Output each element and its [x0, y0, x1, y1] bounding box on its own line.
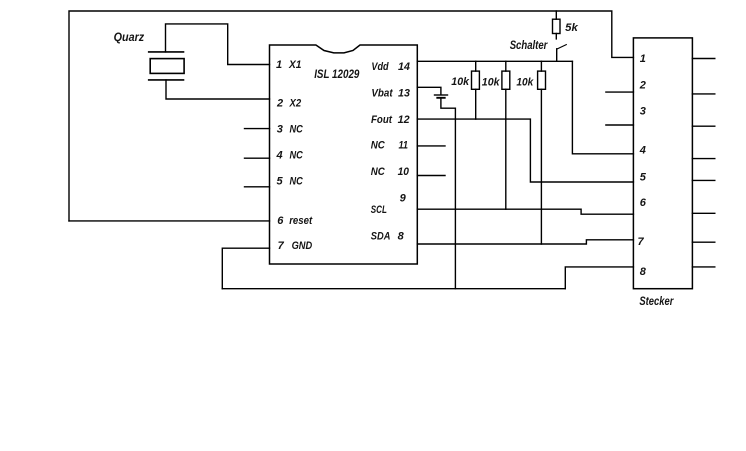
svg-text:5: 5 [640, 171, 647, 183]
svg-text:6: 6 [277, 215, 284, 227]
resistor R4 10k lead bottom to SDA [540, 89, 542, 244]
wire Vbat pin13 to battery [417, 87, 441, 94]
wire battery negative to ground rail [441, 99, 456, 289]
IC U1 ISL12029 body with notch [270, 45, 418, 264]
svg-text:3: 3 [277, 123, 283, 135]
svg-text:6: 6 [640, 197, 647, 209]
resistor R3 10k lead bottom to SCL [505, 89, 507, 209]
svg-text:14: 14 [398, 61, 410, 73]
svg-text:3: 3 [640, 105, 646, 117]
svg-text:10k: 10k [482, 77, 501, 89]
wire connector pin3 stub left [606, 124, 634, 126]
svg-text:8: 8 [640, 266, 647, 278]
svg-text:SDA: SDA [371, 231, 391, 243]
wire pin5 NC stub [245, 186, 270, 188]
svg-text:reset: reset [289, 215, 313, 227]
crystal Y1 body [150, 59, 184, 74]
wire connector pin3 stub right [692, 125, 714, 127]
resistor R2 10k lead top [475, 61, 477, 71]
svg-text:Quarz: Quarz [114, 30, 145, 44]
wire Vdd pin14 rail [417, 60, 572, 62]
svg-text:Fout: Fout [371, 114, 393, 126]
resistor R4 10k lead top [540, 61, 542, 71]
svg-text:10: 10 [398, 166, 410, 178]
svg-text:GND: GND [292, 240, 313, 252]
switch S1 lower lead [556, 49, 558, 62]
wire connector pin7 stub right [692, 241, 714, 243]
crystal Y1 bottom plate [149, 79, 184, 81]
svg-text:13: 13 [398, 87, 410, 99]
svg-text:11: 11 [399, 139, 409, 151]
svg-text:2: 2 [276, 97, 283, 109]
svg-text:NC: NC [290, 123, 304, 135]
wire connector pin8 stub right [692, 266, 714, 268]
svg-text:NC: NC [371, 139, 386, 151]
svg-text:10k: 10k [451, 76, 470, 88]
svg-text:4: 4 [276, 150, 283, 162]
wire connector pin4 stub right [692, 158, 714, 160]
resistor R4 10k body [538, 71, 546, 89]
wire connector pin1 stub right [692, 58, 714, 60]
svg-text:X2: X2 [289, 97, 302, 109]
svg-text:X1: X1 [288, 59, 301, 71]
svg-text:Vbat: Vbat [371, 87, 393, 99]
wire crystal top to IC pin1 X1 [166, 24, 270, 65]
wire ground rail to connector pin8 [565, 267, 633, 289]
svg-text:9: 9 [400, 192, 407, 204]
resistor R1 5k lead bottom [555, 34, 557, 39]
wire connector pin2 stub right [692, 93, 714, 95]
wire pin11 NC stub [417, 145, 445, 147]
svg-text:4: 4 [639, 145, 646, 157]
switch S1 blade [557, 45, 566, 49]
resistor R3 10k body [502, 71, 510, 89]
svg-text:NC: NC [371, 166, 386, 178]
svg-text:Vdd: Vdd [371, 61, 388, 73]
svg-text:Schalter: Schalter [510, 38, 549, 52]
svg-text:7: 7 [638, 236, 645, 248]
wire GND pin7 to bottom rail [222, 248, 269, 289]
svg-text:5: 5 [277, 176, 284, 188]
battery BT1 negative plate [437, 97, 444, 99]
resistor R2 10k body [472, 71, 480, 89]
wire SDA pin8 to connector pin7 [417, 240, 633, 244]
wire crystal bottom to IC pin2 X2 [166, 80, 270, 99]
resistor R3 10k lead top [505, 61, 507, 71]
wire connector pin2 stub left [606, 91, 634, 93]
wire pin4 NC stub [245, 157, 270, 159]
wire reset pin6 to left rail [69, 220, 270, 222]
svg-text:7: 7 [278, 240, 285, 252]
svg-text:1: 1 [276, 59, 282, 71]
svg-text:5k: 5k [565, 22, 578, 34]
svg-text:NC: NC [290, 150, 304, 162]
svg-text:ISL 12029: ISL 12029 [314, 67, 360, 81]
wire Fout pin12 to connector pin5 [417, 119, 633, 182]
resistor R1 5k lead top [555, 11, 557, 19]
wire SCL pin9 to connector pin6 [417, 209, 633, 214]
svg-text:SCL: SCL [371, 204, 387, 216]
wire pin10 NC stub [417, 175, 445, 177]
resistor R1 5k body [553, 19, 561, 33]
svg-text:10k: 10k [516, 77, 534, 89]
svg-text:12: 12 [398, 114, 410, 126]
svg-text:1: 1 [640, 53, 646, 65]
wire top rail (reset / 5k / connector pin1 net) [69, 11, 633, 221]
battery BT1 positive plate [435, 94, 448, 96]
wire connector pin5 stub right [692, 179, 714, 181]
wire pin3 NC stub [245, 128, 270, 130]
svg-text:2: 2 [639, 79, 646, 91]
svg-text:8: 8 [398, 231, 405, 243]
wire bottom ground rail [222, 288, 565, 290]
connector J1 body [633, 38, 692, 289]
crystal Y1 top plate [149, 51, 184, 53]
svg-text:NC: NC [290, 176, 304, 188]
resistor R2 10k lead bottom to Fout [475, 89, 477, 119]
wire Vdd rail to connector pin4 [572, 61, 633, 154]
wire connector pin6 stub right [692, 212, 714, 214]
svg-text:Stecker: Stecker [639, 294, 674, 308]
